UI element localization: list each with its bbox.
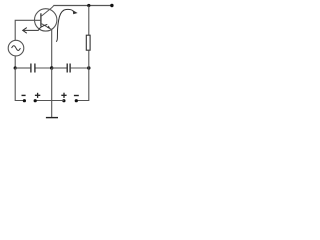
- wire C2 to right rail: [71, 67, 89, 69]
- node junction right cap row: [87, 66, 90, 69]
- wire C1 to center node: [36, 67, 52, 69]
- ac source V1 sine: [12, 46, 21, 51]
- node junction top of resistor: [87, 4, 90, 7]
- wire base lead to left: [15, 20, 41, 40]
- node battery B1 left terminal: [23, 99, 26, 102]
- wire right rail top segment: [88, 6, 90, 36]
- node junction left cap row: [14, 66, 17, 69]
- annotation arrow left (base current) shaft: [23, 24, 47, 30]
- resistor R1: [86, 35, 90, 50]
- wire ac source bottom down: [14, 56, 16, 68]
- annotation arrow left head: [23, 28, 27, 34]
- transistor Q1 emitter arrowhead: [47, 26, 50, 29]
- capacitor C1 right plate: [34, 64, 36, 73]
- wire center node to C2: [52, 67, 67, 69]
- annotation arrow right (collector current) shaft: [56, 9, 73, 41]
- wire cap row left junction to C1: [15, 67, 30, 69]
- ground bar: [46, 117, 58, 119]
- capacitor C2 right plate: [69, 64, 71, 73]
- label plus B2: [61, 94, 66, 96]
- transistor Q1 emitter lead: [41, 23, 51, 29]
- node battery B2 left terminal: [62, 99, 65, 102]
- wire right rail below resistor: [88, 50, 90, 68]
- wire emitter down to cap row: [51, 30, 53, 69]
- transistor Q1 circle: [35, 9, 57, 31]
- ac source V1 circle: [8, 40, 24, 56]
- node junction center cap row: [50, 66, 53, 69]
- label minus B1: [22, 94, 26, 96]
- node output terminal top right: [110, 4, 113, 7]
- wire center vertical cap row to ground (crosses battery wire): [51, 68, 53, 118]
- wire top rail collector to right: [54, 5, 114, 7]
- transistor Q1 base bar: [40, 13, 42, 26]
- node battery B1 right terminal: [34, 99, 37, 102]
- annotation arrow right head: [73, 10, 78, 14]
- capacitor C1 left plate: [30, 64, 32, 73]
- label plus B1: [35, 94, 40, 96]
- wire left vertical down and bottom to battery B1: [15, 68, 24, 101]
- wire right rail down and bottom to battery B2: [76, 68, 89, 101]
- transistor Q1 collector lead: [41, 6, 54, 17]
- node battery B2 right terminal: [75, 99, 78, 102]
- capacitor C2 left plate: [66, 64, 68, 73]
- label minus B2: [74, 95, 79, 97]
- wire battery B2 to battery B1 (crosses center vertical): [35, 100, 64, 102]
